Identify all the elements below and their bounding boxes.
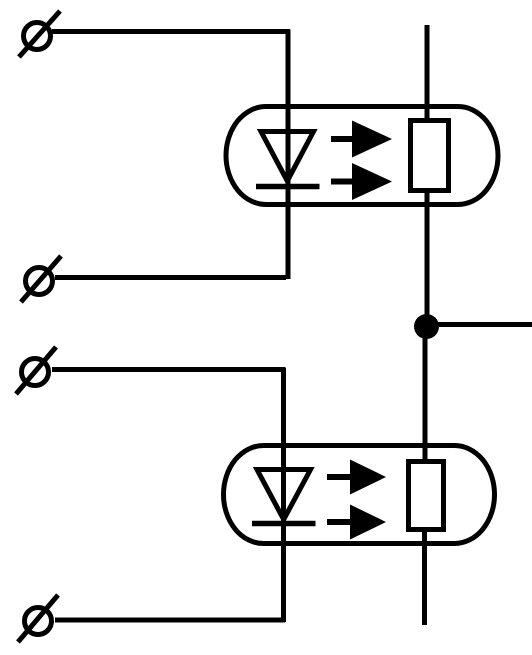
wire LED D2 cathode to terminal X4 (horizontal, y=620): [55, 618, 285, 623]
wire node B to terminal X2 (horizontal, y=277.5): [55, 275, 286, 280]
LED D1 cathode bar: [256, 184, 320, 190]
optocoupler U2 body (stadium outline): [224, 446, 495, 544]
terminal X1 (top-left, slashed circle): [19, 11, 60, 57]
wire vertical through LED D1 (x=288): [286, 30, 291, 280]
wire vertical through LED D2 (x=283.5): [281, 368, 286, 623]
terminal X2 (left, slashed circle): [21, 256, 61, 302]
light arrow U1-b: [331, 163, 392, 200]
light arrow U2-b: [327, 505, 386, 540]
terminal X4 (bottom-left, slashed circle): [18, 595, 58, 642]
wire X1 to node A (horizontal, y=31.5): [52, 29, 290, 34]
LED D2 cathode bar: [252, 521, 316, 527]
light arrow U1-a: [331, 121, 392, 158]
optocoupler U1 body (stadium outline): [226, 107, 498, 205]
photoresistor R2 (rectangle): [409, 462, 444, 530]
wire X3 to LED D2 anode (horizontal, y=369.5): [52, 367, 285, 372]
photoresistor R1 (rectangle): [411, 121, 449, 191]
wire junction to right edge (output, y=324.5): [427, 322, 532, 327]
wire top feed vertical (x=427, from y=25 to junction): [425, 25, 430, 329]
terminal X3 (left, slashed circle): [16, 347, 56, 394]
LED D2 (triangle, anode top): [257, 470, 311, 520]
light arrow U2-a: [327, 460, 386, 495]
wire junction down to U2 (x=425): [423, 324, 428, 465]
junction node (solder dot): [414, 314, 439, 339]
LED D1 (triangle, anode top): [261, 132, 314, 182]
wire R2 bottom stub (x=424.5, down to y=625): [422, 525, 427, 625]
